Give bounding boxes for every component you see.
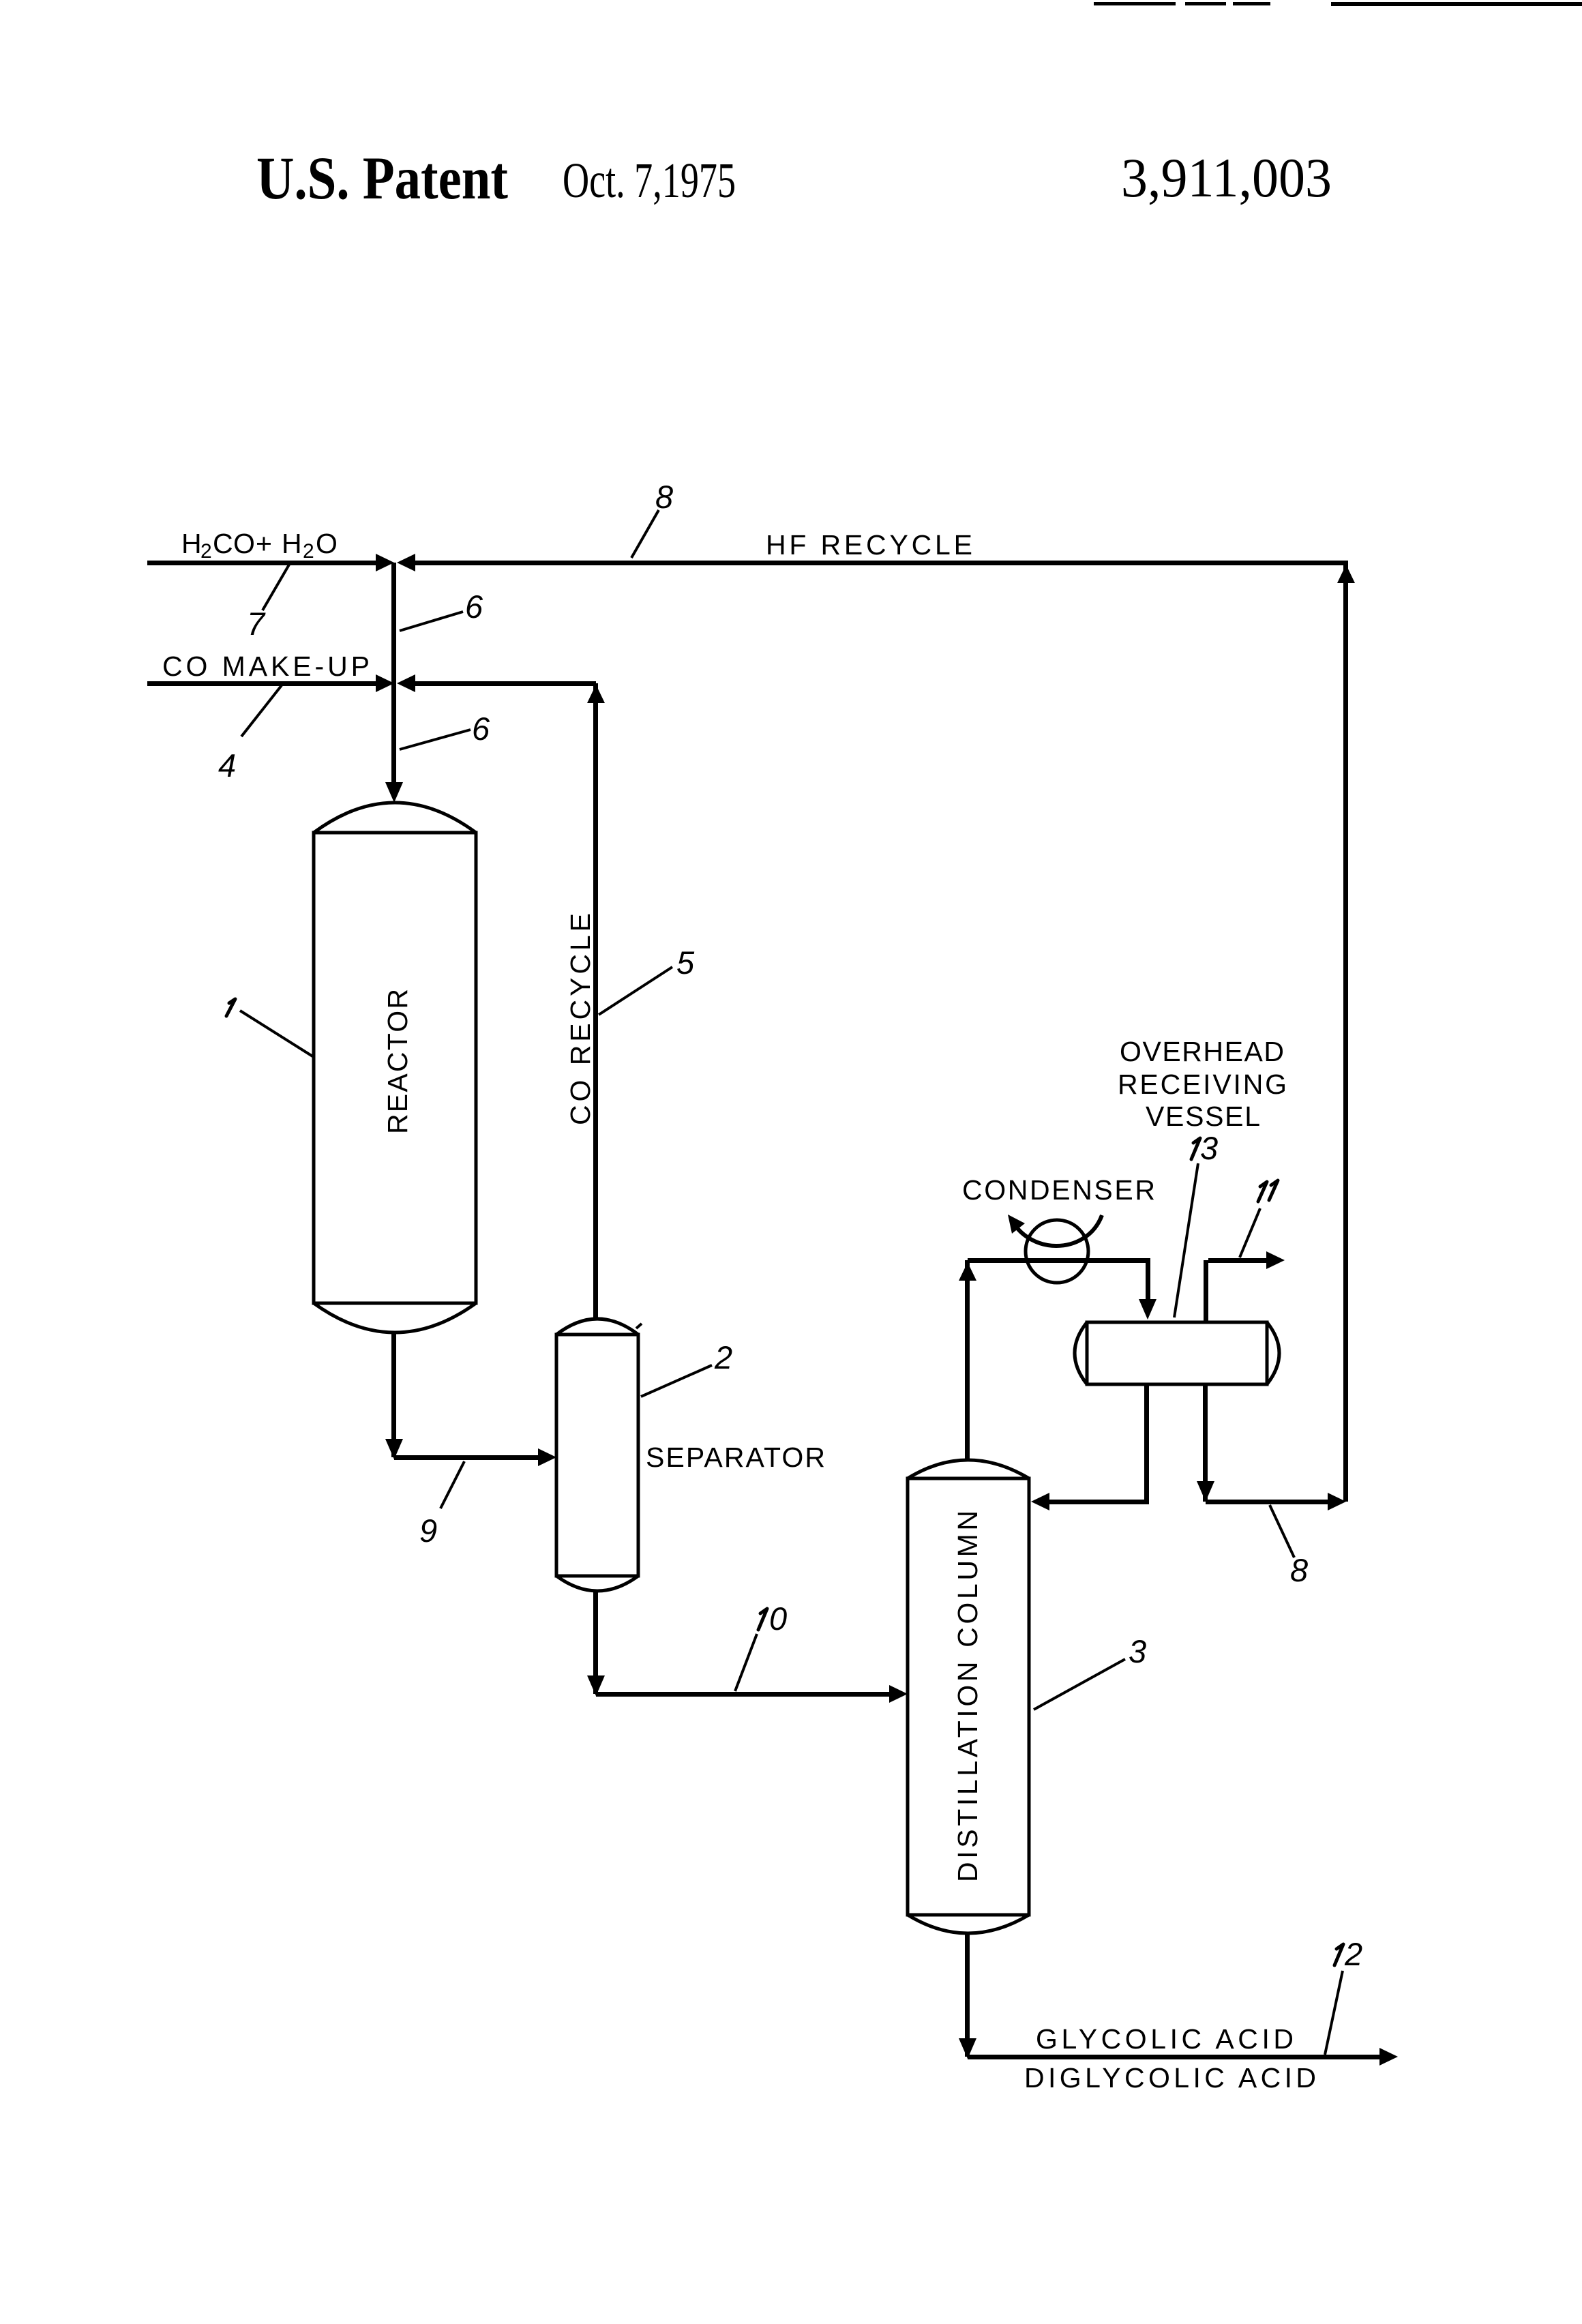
svg-text:DISTILLATION COLUMN: DISTILLATION COLUMN [952,1510,983,1882]
svg-text:3: 3 [1129,1633,1146,1669]
svg-text:8: 8 [655,479,673,515]
wire: product line 12 (y=3016) [968,2055,1379,2059]
leader for 3 [1034,1659,1125,1710]
svg-text:HF RECYCLE: HF RECYCLE [766,529,972,561]
wire: product 11 out (y=1848) [1208,1258,1266,1263]
svg-text:GLYCOLIC ACID: GLYCOLIC ACID [1036,2023,1294,2055]
arrowhead right at junction 6 (top) [376,554,394,571]
stray mark near separator top [636,1324,642,1328]
svg-text:7: 7 [247,606,266,642]
wire: vertical stream 6 (between junctions) [391,563,396,683]
reactor vessel 1 [314,803,476,1332]
arrowhead down at product corner [959,2038,976,2059]
svg-text:CO RECYCLE: CO RECYCLE [565,913,596,1125]
separator vessel 2 [556,1319,638,1591]
wire: to separator (y=2137) [394,1455,538,1460]
svg-text:Oct. 7,1975: Oct. 7,1975 [563,153,736,208]
wire: HF bottoms from vessel down [1203,1384,1208,1502]
arrowhead left into column [1031,1493,1049,1510]
wire: vertical stream 6 into reactor [391,683,396,782]
arrowhead down into vessel [1139,1299,1156,1320]
condenser circle [1026,1220,1088,1283]
wire: product 11 riser from vessel [1204,1260,1208,1322]
arrowhead right into HF riser [1328,1493,1346,1510]
svg-text:3: 3 [1200,1130,1218,1166]
arrowhead left at junction 6 from HF recycle [397,554,415,571]
wire: HF recycle riser (right side) [1343,565,1348,1502]
leader for 11 [1240,1208,1260,1257]
scan artifact top rule right [1331,2,1582,6]
arrowhead down at corner 9 [385,1439,403,1459]
arrowhead down at corner 10 [587,1675,605,1696]
leader for 7 [263,565,289,610]
leader for 2 [641,1365,712,1397]
leader for 9 [441,1461,464,1508]
leader for 6 (lower) [400,730,471,749]
wire: column overhead riser [965,1260,970,1460]
label 11 [1258,1182,1267,1202]
svg-text:REACTOR: REACTOR [382,989,413,1134]
arrowhead left at junction from CO recycle [397,674,415,692]
label 10 [758,1609,767,1630]
wire: reflux to column (y=2202) [1049,1500,1149,1504]
wire: overhead line to vessel (y=1848) [968,1258,1150,1263]
svg-text:5: 5 [676,944,695,981]
arrowhead right into separator [538,1448,556,1466]
arrowhead up at overhead corner [959,1262,976,1281]
svg-text:6: 6 [465,589,483,625]
svg-text:9: 9 [419,1513,437,1549]
arrowhead down at HF corner [1197,1481,1214,1502]
arrowhead right at junction (CO make-up) [376,674,394,692]
svg-text:OVERHEAD: OVERHEAD [1120,1036,1284,1067]
svg-text:0: 0 [769,1600,787,1637]
leader for 5 [599,967,672,1015]
wire: HF to riser (y=2202) [1206,1500,1328,1504]
condenser swirl arrow [1015,1215,1102,1246]
wire: CO recycle return (y=1002) [415,681,596,686]
arrowhead up at HF top corner [1337,565,1355,583]
wire: column bottoms down [965,1933,970,2057]
svg-text:VESSEL: VESSEL [1146,1101,1260,1132]
svg-text:SEPARATOR: SEPARATOR [646,1442,825,1473]
wire: CO make-up line (left segment, y=1002) [147,681,376,686]
wire: reactor outlet down [391,1332,396,1457]
leader for 1 [240,1011,314,1057]
label 13 [1191,1138,1200,1159]
svg-text:6: 6 [472,711,490,747]
leader for 8 (bottom) [1270,1505,1294,1558]
arrowhead down into reactor [385,782,403,803]
arrowhead up at CO recycle corner [587,685,605,703]
leader for 4 [241,685,282,736]
wire: reflux from vessel down [1144,1384,1149,1502]
wire: separator bottoms down [593,1591,598,1694]
wire: HF recycle line (right segment, y=825) [415,561,1348,565]
svg-text:2: 2 [1344,1936,1362,1972]
leader for 12 [1325,1971,1343,2055]
overhead receiving vessel 13 [1075,1322,1279,1384]
wire: CO recycle riser [593,683,598,1319]
svg-text:3,911,003: 3,911,003 [1121,147,1332,209]
arrowhead right product 12 [1379,2048,1398,2066]
wire: to distillation column (y=2484) [596,1692,889,1697]
svg-text:CONDENSER: CONDENSER [962,1174,1155,1206]
svg-text:2: 2 [714,1339,732,1375]
distillation column 3 [908,1460,1029,1933]
leader for 13 [1174,1163,1198,1317]
label 12 [1334,1944,1343,1965]
svg-text:4: 4 [218,747,236,784]
arrowhead right into column [889,1685,908,1703]
arrowhead right product 11 [1266,1251,1285,1269]
svg-text:CO MAKE-UP: CO MAKE-UP [162,651,370,682]
wire: down into receiving vessel [1146,1260,1150,1301]
svg-text:U.S. Patent: U.S. Patent [256,145,508,212]
leader for 6 (upper) [400,612,463,631]
label 1 [226,999,235,1016]
leader for 10 [735,1634,757,1691]
leader for 8 (top) [631,510,659,558]
wire: H2CO feed line (left segment, y=825) [147,561,376,565]
scan artifact top rule left [1094,2,1270,5]
